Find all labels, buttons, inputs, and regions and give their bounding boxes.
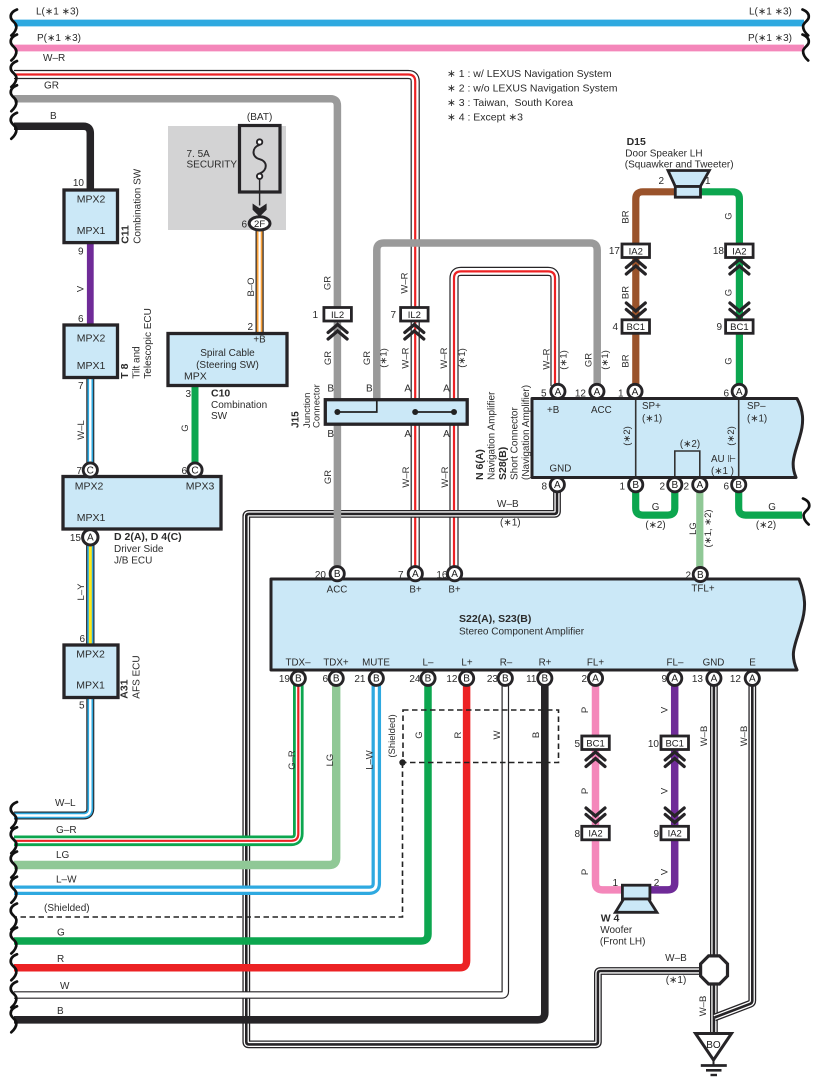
svg-text:A: A bbox=[412, 569, 419, 580]
svg-text:L–W: L–W bbox=[56, 875, 77, 886]
connector oval 2F pin6 bbox=[249, 217, 270, 230]
svg-text:Combination: Combination bbox=[211, 400, 267, 411]
svg-text:(Navigation Amplifier): (Navigation Amplifier) bbox=[521, 385, 532, 480]
chevron marker below IL2 pin1 bbox=[328, 325, 347, 340]
svg-text:A: A bbox=[451, 569, 458, 580]
wire G from stereo amp L- to left edge bbox=[14, 685, 428, 941]
left break of W-L wire bbox=[11, 802, 17, 828]
svg-text:B: B bbox=[334, 569, 341, 580]
svg-text:W–R: W–R bbox=[400, 272, 411, 293]
svg-text:Tilt and: Tilt and bbox=[132, 346, 143, 378]
svg-text:Spiral Cable: Spiral Cable bbox=[200, 348, 255, 359]
svg-text:A: A bbox=[87, 533, 94, 544]
svg-text:6: 6 bbox=[723, 482, 729, 493]
svg-text:GR: GR bbox=[584, 353, 595, 367]
svg-text:(∗1): (∗1) bbox=[378, 348, 389, 368]
svg-text:L–W: L–W bbox=[365, 750, 376, 770]
chevron above BC1 pin9 bbox=[730, 303, 749, 318]
pin 20(B) ACC of stereo amplifier bbox=[330, 567, 344, 581]
svg-text:R: R bbox=[57, 954, 64, 965]
svg-text:2: 2 bbox=[247, 322, 253, 333]
svg-text:B: B bbox=[425, 674, 432, 685]
left break of G-R wire bbox=[11, 827, 17, 853]
svg-text:16: 16 bbox=[436, 570, 448, 581]
svg-text:(∗1): (∗1) bbox=[559, 350, 570, 370]
svg-text:IA2: IA2 bbox=[732, 246, 746, 257]
svg-text:A: A bbox=[594, 387, 601, 398]
svg-text:8: 8 bbox=[574, 829, 580, 840]
wire W-R (*1) from J15 to stereo amp B+ pin16 bbox=[449, 423, 458, 573]
left break of shielded dashed line bbox=[11, 904, 17, 930]
svg-text:A: A bbox=[671, 674, 678, 685]
svg-text:(∗2): (∗2) bbox=[622, 426, 633, 446]
svg-text:(∗1): (∗1) bbox=[747, 414, 767, 425]
svg-text:7: 7 bbox=[78, 381, 84, 392]
svg-text:BC1: BC1 bbox=[627, 322, 645, 333]
wire W-B from stereo amp E joining ground wire bbox=[715, 685, 753, 1018]
svg-text:IA2: IA2 bbox=[588, 829, 602, 840]
svg-text:BR: BR bbox=[621, 286, 632, 299]
svg-text:A: A bbox=[404, 384, 411, 395]
svg-text:J15: J15 bbox=[291, 411, 302, 428]
svg-text:21: 21 bbox=[354, 674, 366, 685]
svg-text:A: A bbox=[696, 480, 703, 491]
svg-text:S28(B): S28(B) bbox=[497, 447, 509, 480]
svg-text:7: 7 bbox=[390, 310, 396, 321]
svg-text:13: 13 bbox=[692, 674, 704, 685]
svg-text:P: P bbox=[580, 869, 591, 875]
svg-text:B: B bbox=[57, 1006, 64, 1017]
svg-text:7: 7 bbox=[76, 466, 82, 477]
svg-text:MPX2: MPX2 bbox=[75, 481, 104, 493]
svg-text:D 2(A), D 4(C): D 2(A), D 4(C) bbox=[114, 531, 182, 543]
svg-text:9: 9 bbox=[716, 322, 722, 333]
svg-text:TFL+: TFL+ bbox=[691, 584, 714, 595]
svg-text:MPX1: MPX1 bbox=[77, 512, 106, 524]
svg-text:(Squawker and Tweeter): (Squawker and Tweeter) bbox=[625, 160, 734, 171]
svg-text:MPX3: MPX3 bbox=[186, 481, 215, 493]
wire R from stereo amp L+ to left edge bbox=[14, 685, 467, 968]
svg-text:6: 6 bbox=[78, 314, 84, 325]
svg-text:G: G bbox=[652, 502, 660, 513]
svg-text:B: B bbox=[735, 480, 742, 491]
pin 7(A) B+ of stereo amplifier bbox=[408, 567, 422, 581]
svg-text:A: A bbox=[555, 387, 562, 398]
svg-text:GND: GND bbox=[703, 658, 725, 669]
pin 2(B) TFL+ of stereo amplifier bbox=[693, 567, 707, 581]
svg-text:L–: L– bbox=[423, 658, 434, 669]
connector IA2 pin9 on V wire bbox=[661, 826, 689, 840]
svg-text:SECURITY: SECURITY bbox=[187, 160, 238, 171]
svg-text:GR: GR bbox=[323, 351, 334, 365]
svg-text:S22(A), S23(B): S22(A), S23(B) bbox=[459, 613, 531, 625]
svg-text:5: 5 bbox=[574, 739, 580, 750]
svg-text:2F: 2F bbox=[254, 219, 265, 230]
right break of G (*2) wire bbox=[803, 499, 809, 525]
svg-text:7: 7 bbox=[398, 570, 404, 581]
spiral cable steering switch box bbox=[168, 334, 287, 386]
wire G from door speaker pin1 via IA2/BC1 to nav SP- bbox=[700, 192, 739, 385]
svg-text:MPX1: MPX1 bbox=[77, 360, 106, 372]
svg-text:B+: B+ bbox=[409, 585, 422, 596]
svg-text:GR: GR bbox=[362, 351, 373, 365]
svg-text:P: P bbox=[580, 707, 591, 713]
svg-text:ACC: ACC bbox=[591, 405, 612, 416]
svg-text:(∗1): (∗1) bbox=[457, 348, 468, 368]
pin 12(B) L+ of stereo amplifier bbox=[460, 671, 474, 685]
wire W from stereo amp R- to left edge bbox=[14, 685, 505, 995]
svg-text:E: E bbox=[749, 658, 756, 669]
svg-text:W–B: W–B bbox=[739, 726, 750, 747]
svg-text:A: A bbox=[404, 429, 411, 440]
wire BR from door speaker pin2 via IA2/BC1 to nav SP+ bbox=[636, 192, 676, 385]
connector IA2 pin8 on P wire bbox=[582, 826, 610, 840]
svg-text:FL+: FL+ bbox=[587, 658, 604, 669]
svg-text:5: 5 bbox=[541, 388, 547, 399]
connector BC1 pin9 on G wire bbox=[726, 320, 754, 334]
wire B black to C11 combination switch pin10 bbox=[14, 126, 90, 192]
chevron above BC1 pin4 bbox=[626, 303, 645, 318]
svg-text:24: 24 bbox=[409, 674, 421, 685]
chevron below IA2 pin18 bbox=[730, 260, 749, 275]
svg-text:IA2: IA2 bbox=[668, 829, 682, 840]
svg-text:17: 17 bbox=[609, 246, 621, 257]
svg-text:Stereo Component Amplifier: Stereo Component Amplifier bbox=[459, 627, 585, 638]
svg-text:1: 1 bbox=[612, 878, 618, 889]
pin 21(B) MUTE of stereo amplifier bbox=[369, 671, 383, 685]
chevron above IA2 pin9 bbox=[665, 808, 684, 823]
svg-text:TDX–: TDX– bbox=[285, 658, 311, 669]
svg-text:B: B bbox=[50, 111, 57, 122]
wire W-L from AFS ECU pin5 to left edge bbox=[14, 697, 90, 816]
svg-text:W–B: W–B bbox=[497, 499, 519, 510]
pin 15(A) of J/B ECU bbox=[83, 530, 98, 545]
svg-text:TDX+: TDX+ bbox=[323, 658, 349, 669]
pin 19(B) TDX- of stereo amplifier bbox=[291, 671, 305, 685]
svg-text:G: G bbox=[768, 502, 776, 513]
svg-text:Short Connector: Short Connector bbox=[510, 407, 521, 480]
svg-text:A: A bbox=[711, 674, 718, 685]
svg-text:6: 6 bbox=[181, 466, 187, 477]
wire G (*2) jumper between nav pins 1(B) and 2(B) bbox=[636, 491, 675, 515]
arrow from fuse to connector 2F bbox=[253, 204, 267, 217]
svg-text:GR: GR bbox=[323, 470, 334, 484]
svg-text:G–R: G–R bbox=[287, 750, 298, 770]
svg-text:G: G bbox=[414, 731, 425, 738]
chevron below BC1 pin10 bbox=[665, 752, 684, 767]
svg-text:1: 1 bbox=[705, 176, 711, 187]
svg-text:∗ 4 : Except ∗3: ∗ 4 : Except ∗3 bbox=[447, 112, 523, 124]
svg-text:10: 10 bbox=[648, 739, 660, 750]
svg-text:2: 2 bbox=[683, 482, 689, 493]
pin 16(A) B+ of stereo amplifier bbox=[448, 567, 462, 581]
wire LG from stereo amp TDX+ to left edge bbox=[14, 685, 336, 865]
chevron below IA2 pin17 bbox=[626, 260, 645, 275]
wire G from spiral cable MPX to J/B ECU MPX3 pin6 bbox=[192, 385, 199, 464]
right break of P bus bbox=[803, 35, 809, 61]
svg-text:MPX: MPX bbox=[184, 371, 207, 383]
wire GR from left edge via IL2 pin1 and J15 to stereo amp ACC bbox=[14, 99, 337, 573]
svg-text:+B: +B bbox=[253, 335, 266, 346]
fuse 7.5A SECURITY bbox=[240, 126, 281, 206]
left break of W-R wire bbox=[11, 61, 17, 87]
svg-text:∗ 3 : Taiwan, South Korea: ∗ 3 : Taiwan, South Korea bbox=[447, 97, 573, 109]
svg-text:IL2: IL2 bbox=[331, 310, 344, 321]
svg-text:LG: LG bbox=[688, 522, 699, 535]
svg-text:15: 15 bbox=[70, 533, 82, 544]
svg-text:LG: LG bbox=[56, 850, 70, 861]
svg-text:V: V bbox=[660, 787, 671, 794]
svg-text:B–O: B–O bbox=[246, 277, 257, 296]
pin 6(A) SP- of navigation amplifier bbox=[732, 384, 746, 398]
connector IA2 pin17 on BR wire bbox=[622, 244, 650, 258]
svg-text:SP+: SP+ bbox=[642, 401, 661, 412]
svg-text:B: B bbox=[366, 384, 373, 395]
wire P pink bus (*1 *3) bbox=[14, 45, 804, 52]
svg-text:W–B: W–B bbox=[665, 953, 687, 964]
pin 1(A) SP+ of navigation amplifier bbox=[628, 384, 642, 398]
svg-text:W–L: W–L bbox=[76, 420, 87, 440]
wire W-L from tilt telescopic ECU pin7 to J/B ECU pin7 bbox=[86, 377, 94, 464]
svg-text:W 4: W 4 bbox=[601, 913, 620, 925]
svg-text:Connector: Connector bbox=[312, 384, 323, 428]
svg-text:(BAT): (BAT) bbox=[247, 112, 272, 123]
svg-text:8: 8 bbox=[541, 482, 547, 493]
connector BC1 pin4 on BR wire bbox=[622, 320, 650, 334]
left break of B wire bbox=[11, 113, 17, 139]
svg-text:L(∗1 ∗3): L(∗1 ∗3) bbox=[749, 7, 792, 18]
wire W-R from left edge via IL2 pin7 and J15 to stereo amp B+ bbox=[14, 75, 415, 574]
svg-text:V: V bbox=[660, 706, 671, 713]
wire L-Y from J/B ECU pin15 to AFS ECU pin6 bbox=[86, 544, 94, 646]
svg-text:(Front LH): (Front LH) bbox=[600, 937, 646, 948]
svg-text:6: 6 bbox=[241, 219, 247, 230]
connector IA2 pin18 on G wire bbox=[726, 244, 754, 258]
svg-text:R+: R+ bbox=[539, 658, 552, 669]
svg-text:BC1: BC1 bbox=[730, 322, 748, 333]
svg-text:W–B: W–B bbox=[699, 726, 710, 747]
door speaker LH D15 symbol bbox=[668, 171, 709, 198]
svg-text:Telescopic ECU: Telescopic ECU bbox=[143, 308, 154, 379]
wire GR (*1) from J15 to navigation amplifier ACC bbox=[377, 243, 597, 401]
noise filter octagon node bbox=[701, 956, 728, 984]
svg-text:7. 5A: 7. 5A bbox=[187, 149, 211, 160]
pin 5(A) +B of navigation amplifier bbox=[551, 384, 565, 398]
chevron above IA2 pin8 bbox=[586, 808, 605, 823]
pin 6(C) of J/B ECU bbox=[188, 463, 202, 477]
svg-text:(∗1, ∗2): (∗1, ∗2) bbox=[703, 509, 714, 547]
svg-text:W–R: W–R bbox=[43, 53, 65, 64]
svg-text:(∗2): (∗2) bbox=[645, 520, 665, 531]
svg-text:(∗1): (∗1) bbox=[666, 975, 687, 986]
svg-text:(Shielded): (Shielded) bbox=[387, 714, 398, 757]
wire V from stereo amp FL- via BC1/IA2 to woofer pin2 bbox=[649, 685, 675, 890]
svg-text:N 6(A): N 6(A) bbox=[474, 449, 486, 480]
wire G (*2) from nav 6(B) to right edge bbox=[739, 491, 802, 515]
svg-text:2: 2 bbox=[581, 674, 587, 685]
wire V from C11 pin9 to tilt telescopic ECU pin6 bbox=[87, 242, 94, 326]
left break of L bus bbox=[11, 10, 17, 36]
svg-text:19: 19 bbox=[279, 674, 291, 685]
svg-text:B: B bbox=[327, 429, 334, 440]
shielded cable dashed outline around L-/L+/R-/R+ wires bbox=[14, 710, 559, 917]
svg-text:(Shielded): (Shielded) bbox=[44, 903, 90, 914]
svg-text:A: A bbox=[443, 384, 450, 395]
svg-text:2: 2 bbox=[659, 482, 665, 493]
svg-text:C11: C11 bbox=[120, 225, 132, 244]
body ground BO triangle bbox=[696, 1034, 732, 1061]
svg-text:9: 9 bbox=[78, 247, 84, 258]
pin 6(B) TDX+ of stereo amplifier bbox=[329, 671, 343, 685]
left break of LG wire bbox=[11, 852, 17, 878]
svg-text:W–R: W–R bbox=[401, 466, 412, 487]
svg-text:MPX2: MPX2 bbox=[76, 649, 105, 661]
svg-text:12: 12 bbox=[575, 388, 587, 399]
stereo component amplifier S22(A) S23(B) box bbox=[271, 579, 805, 670]
svg-text:∗ 1 : w/ LEXUS Navigation Syst: ∗ 1 : w/ LEXUS Navigation System bbox=[447, 68, 612, 80]
svg-text:V: V bbox=[660, 868, 671, 875]
svg-text:R–: R– bbox=[500, 658, 513, 669]
svg-text:L–Y: L–Y bbox=[76, 583, 87, 601]
pin 12(A) E of stereo amplifier bbox=[745, 671, 759, 685]
svg-text:B: B bbox=[541, 674, 548, 685]
connector BC1 pin5 on P wire bbox=[582, 736, 610, 750]
svg-text:Combination SW: Combination SW bbox=[133, 168, 144, 244]
connector BC1 pin10 on V wire bbox=[661, 736, 689, 750]
svg-text:R: R bbox=[453, 731, 464, 738]
svg-text:G–R: G–R bbox=[56, 825, 77, 836]
svg-text:1: 1 bbox=[312, 310, 318, 321]
svg-text:LG: LG bbox=[325, 754, 336, 767]
wire P from stereo amp FL+ via BC1/IA2 to woofer pin1 bbox=[596, 685, 624, 890]
svg-text:12: 12 bbox=[730, 674, 742, 685]
pin 13(A) GND of stereo amplifier bbox=[707, 671, 721, 685]
woofer W4 front LH symbol bbox=[615, 885, 657, 912]
wire W-R (*1) from J15 to navigation amplifier +B bbox=[454, 271, 555, 401]
svg-text:BO: BO bbox=[706, 1040, 721, 1051]
svg-text:BC1: BC1 bbox=[665, 738, 683, 749]
svg-text:18: 18 bbox=[713, 246, 725, 257]
pin 2(B) of navigation amplifier bbox=[668, 478, 682, 492]
pin 2(A) FL+ of stereo amplifier bbox=[588, 671, 602, 685]
svg-text:B: B bbox=[531, 732, 542, 738]
svg-text:6: 6 bbox=[79, 634, 85, 645]
svg-text:+B: +B bbox=[547, 405, 560, 416]
pin 6(B) of navigation amplifier bbox=[732, 478, 746, 492]
svg-text:Navigation Amplifier: Navigation Amplifier bbox=[487, 391, 498, 480]
pin 8(A) GND of navigation amplifier bbox=[550, 478, 564, 492]
svg-text:1: 1 bbox=[618, 388, 624, 399]
svg-text:W–R: W–R bbox=[542, 348, 553, 369]
svg-text:MUTE: MUTE bbox=[362, 658, 390, 669]
pin 23(B) R- of stereo amplifier bbox=[498, 671, 512, 685]
svg-text:P(∗1 ∗3): P(∗1 ∗3) bbox=[748, 33, 792, 44]
wire G-R from stereo amp TDX- to left edge bbox=[14, 685, 298, 841]
pin 9(A) FL- of stereo amplifier bbox=[668, 671, 682, 685]
wire B from stereo amp R+ to left edge bbox=[14, 685, 545, 1020]
svg-text:9: 9 bbox=[653, 829, 659, 840]
svg-text:SP–: SP– bbox=[747, 401, 766, 412]
chevron marker below IL2 pin7 bbox=[405, 325, 424, 340]
svg-text:(∗1): (∗1) bbox=[642, 414, 662, 425]
svg-text:A: A bbox=[443, 429, 450, 440]
navigation amplifier internal variant lines bbox=[636, 400, 739, 476]
svg-text:B: B bbox=[502, 674, 509, 685]
svg-text:IA2: IA2 bbox=[629, 246, 643, 257]
svg-text:T 8: T 8 bbox=[119, 363, 131, 378]
svg-text:W–R: W–R bbox=[440, 466, 451, 487]
driver side J/B ECU D2/D4 box bbox=[63, 477, 221, 530]
tilt and telescopic ECU T8 box bbox=[64, 325, 118, 378]
svg-text:B: B bbox=[295, 674, 302, 685]
wire W-B from stereo amp GND via noise filter to body ground BO bbox=[710, 685, 718, 1035]
svg-text:J/B ECU: J/B ECU bbox=[114, 556, 152, 567]
svg-text:(∗1): (∗1) bbox=[500, 518, 521, 529]
svg-text:BR: BR bbox=[621, 210, 632, 223]
svg-text:D15: D15 bbox=[627, 136, 646, 148]
chevron below BC1 pin5 bbox=[586, 752, 605, 767]
svg-text:Driver Side: Driver Side bbox=[114, 544, 164, 555]
svg-text:∗ 2 : w/o LEXUS Navigation Sys: ∗ 2 : w/o LEXUS Navigation System bbox=[447, 83, 618, 95]
svg-text:2: 2 bbox=[658, 176, 664, 187]
svg-text:L(∗1 ∗3): L(∗1 ∗3) bbox=[36, 7, 79, 18]
pin 2(A) of navigation amplifier bbox=[693, 478, 707, 492]
svg-text:20: 20 bbox=[315, 570, 327, 581]
svg-text:BR: BR bbox=[621, 354, 632, 367]
AFS ECU A31 box bbox=[64, 645, 118, 698]
left break of P bus bbox=[11, 35, 17, 61]
svg-text:IL2: IL2 bbox=[408, 310, 421, 321]
svg-text:L+: L+ bbox=[461, 658, 472, 669]
svg-text:B: B bbox=[671, 480, 678, 491]
svg-text:W–L: W–L bbox=[55, 798, 76, 809]
svg-text:GND: GND bbox=[550, 464, 572, 475]
wire B-O from fuse 2F to spiral cable +B bbox=[256, 229, 264, 335]
svg-text:B: B bbox=[327, 384, 334, 395]
svg-text:23: 23 bbox=[487, 674, 499, 685]
svg-text:12: 12 bbox=[446, 674, 458, 685]
wire W-B ground from navigation amplifier GND to noise filter bbox=[246, 490, 701, 1044]
right break of L bus bbox=[803, 10, 809, 36]
svg-text:MPX2: MPX2 bbox=[77, 333, 106, 345]
svg-text:B: B bbox=[333, 674, 340, 685]
pin 7(C) of J/B ECU bbox=[83, 463, 97, 477]
pin 24(B) L- of stereo amplifier bbox=[421, 671, 435, 685]
svg-text:W–R: W–R bbox=[400, 347, 411, 368]
connector IL2 pin7 on W-R wire bbox=[401, 308, 429, 322]
svg-text:G: G bbox=[57, 928, 65, 939]
left break of L-W wire bbox=[11, 877, 17, 903]
connector IL2 pin1 on GR wire bbox=[324, 308, 352, 322]
svg-text:B: B bbox=[463, 674, 470, 685]
svg-text:11: 11 bbox=[526, 674, 537, 685]
left break of R wire bbox=[11, 954, 17, 980]
svg-text:A: A bbox=[736, 387, 743, 398]
svg-text:(∗2): (∗2) bbox=[680, 439, 700, 450]
svg-text:6: 6 bbox=[723, 388, 729, 399]
svg-text:10: 10 bbox=[73, 178, 85, 189]
svg-text:ACC: ACC bbox=[327, 585, 348, 596]
gray fuse block background bbox=[168, 126, 286, 230]
svg-text:(∗1 ): (∗1 ) bbox=[711, 466, 734, 477]
svg-text:B+: B+ bbox=[448, 585, 461, 596]
svg-text:(∗1): (∗1) bbox=[600, 350, 611, 370]
svg-text:FL–: FL– bbox=[667, 658, 684, 669]
svg-text:(Steering SW): (Steering SW) bbox=[196, 360, 259, 371]
svg-text:G: G bbox=[180, 424, 191, 431]
svg-text:C: C bbox=[191, 465, 198, 476]
svg-text:3: 3 bbox=[185, 389, 191, 400]
